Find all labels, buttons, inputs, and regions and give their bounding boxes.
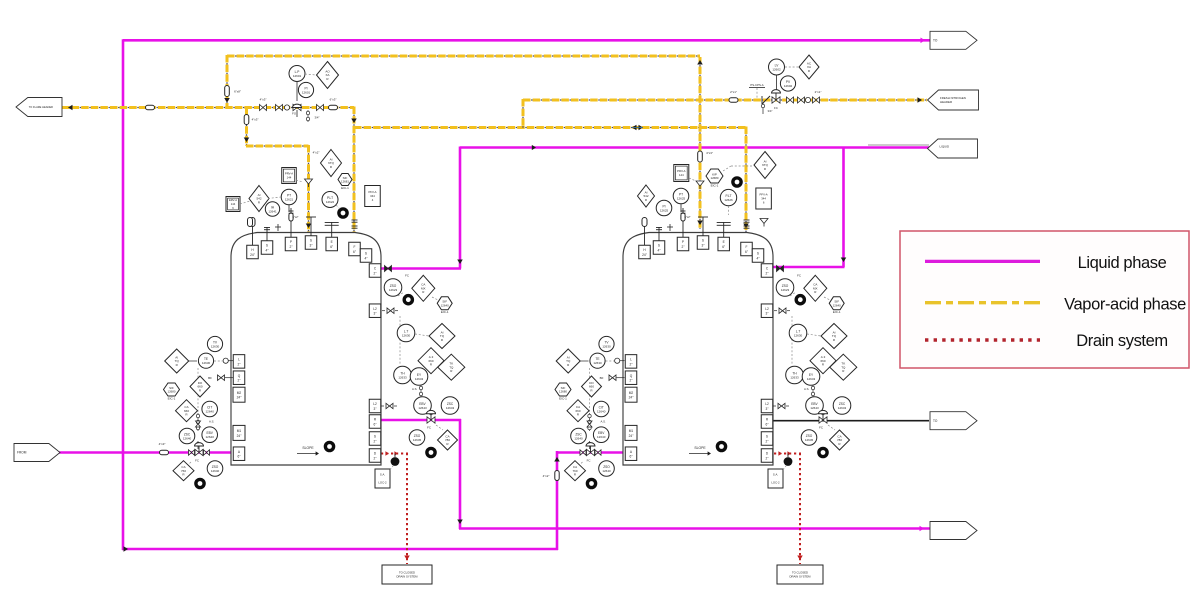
svg-text:12640: 12640 (206, 409, 215, 413)
svg-text:Drain system: Drain system (1076, 332, 1167, 350)
svg-text:Vapor-acid phase: Vapor-acid phase (1064, 296, 1186, 314)
svg-text:12640: 12640 (211, 469, 220, 473)
svg-text:SLOPE: SLOPE (302, 446, 314, 450)
svg-text:12623: 12623 (781, 288, 790, 292)
svg-text:4"x3": 4"x3" (706, 151, 713, 155)
svg-text:M1: M1 (629, 429, 634, 433)
svg-text:12640: 12640 (833, 304, 841, 308)
svg-text:12630: 12630 (211, 344, 220, 348)
svg-text:6": 6" (374, 423, 377, 427)
svg-text:3": 3" (766, 407, 769, 411)
svg-text:4"x2": 4"x2" (313, 151, 320, 155)
svg-text:FC: FC (797, 273, 801, 277)
svg-text:2": 2" (766, 272, 769, 276)
svg-text:2": 2" (766, 440, 769, 444)
svg-text:12643: 12643 (446, 406, 455, 410)
svg-text:24": 24" (250, 253, 255, 257)
svg-text:4": 4" (365, 257, 368, 261)
svg-text:6": 6" (330, 245, 333, 249)
svg-text:EIC-1: EIC-1 (833, 310, 841, 314)
svg-text:LOC-2: LOC-2 (378, 481, 387, 485)
svg-text:TO FLARE HEADER: TO FLARE HEADER (29, 105, 53, 109)
svg-text:3/4": 3/4" (768, 109, 773, 113)
svg-text:A.S.: A.S. (412, 387, 418, 391)
svg-text:LIQUID: LIQUID (939, 145, 949, 149)
svg-text:4": 4" (658, 249, 661, 253)
svg-text:2": 2" (630, 362, 633, 366)
svg-text:S.A.: S.A. (380, 473, 386, 477)
svg-text:TO: TO (933, 419, 938, 423)
svg-text:EIC-1: EIC-1 (711, 183, 719, 187)
svg-text:DRAIN SYSTEM: DRAIN SYSTEM (790, 575, 812, 579)
svg-text:S: S (365, 252, 367, 256)
svg-text:3": 3" (374, 312, 377, 316)
svg-text:S: S (310, 239, 312, 243)
svg-text:EIC-1: EIC-1 (559, 396, 567, 400)
svg-text:12640: 12640 (441, 304, 449, 308)
svg-text:F: F (746, 245, 748, 249)
svg-text:12680: 12680 (710, 176, 718, 180)
svg-text:E: E (723, 240, 725, 244)
svg-text:FC: FC (195, 459, 199, 463)
svg-text:2"x1": 2"x1" (815, 90, 822, 94)
svg-text:12621: 12621 (285, 197, 294, 201)
svg-text:12640: 12640 (206, 435, 215, 439)
svg-text:FC: FC (774, 106, 778, 110)
svg-text:M2: M2 (237, 391, 242, 395)
svg-text:BF: BF (600, 376, 604, 380)
svg-text:6": 6" (722, 245, 725, 249)
svg-text:3": 3" (374, 407, 377, 411)
svg-text:3": 3" (702, 244, 705, 248)
svg-text:12630: 12630 (202, 361, 211, 365)
svg-text:A.S.: A.S. (601, 419, 607, 423)
svg-text:6": 6" (766, 423, 769, 427)
svg-text:L2: L2 (765, 307, 769, 311)
svg-text:12601: 12601 (302, 90, 311, 94)
svg-text:12645: 12645 (805, 438, 814, 442)
svg-text:12630: 12630 (593, 361, 602, 365)
svg-text:12643: 12643 (418, 406, 427, 410)
svg-text:2": 2" (374, 457, 377, 461)
svg-text:12625: 12625 (677, 196, 686, 200)
svg-text:6"x8": 6"x8" (234, 90, 241, 94)
svg-text:2"x1": 2"x1" (730, 90, 737, 94)
svg-text:S: S (374, 435, 376, 439)
svg-text:SLOPE: SLOPE (694, 446, 706, 450)
svg-text:6"x2": 6"x2" (684, 215, 690, 219)
svg-text:24": 24" (629, 396, 634, 400)
svg-text:12626: 12626 (724, 198, 733, 202)
svg-text:2": 2" (238, 362, 241, 366)
svg-text:144: 144 (231, 202, 236, 206)
svg-text:12641: 12641 (268, 209, 277, 213)
svg-text:EIC-1: EIC-1 (441, 310, 449, 314)
svg-text:L: L (630, 358, 632, 362)
svg-text:FROM: FROM (17, 451, 27, 455)
svg-text:HEADER: HEADER (940, 100, 952, 104)
svg-text:24": 24" (237, 434, 242, 438)
svg-text:3": 3" (766, 312, 769, 316)
svg-text:F: F (354, 245, 356, 249)
svg-text:DRAIN SYSTEM: DRAIN SYSTEM (397, 575, 419, 579)
svg-text:L2: L2 (373, 307, 377, 311)
svg-text:144: 144 (287, 176, 292, 180)
svg-text:12680: 12680 (167, 390, 175, 394)
svg-text:12643: 12643 (415, 377, 424, 381)
svg-text:12640: 12640 (602, 469, 611, 473)
svg-text:6"x2": 6"x2" (292, 215, 298, 219)
svg-text:S: S (766, 435, 768, 439)
svg-text:144: 144 (679, 173, 684, 177)
svg-text:2": 2" (238, 379, 241, 383)
svg-text:2": 2" (374, 272, 377, 276)
svg-text:6": 6" (238, 455, 241, 459)
svg-text:2": 2" (290, 245, 293, 249)
svg-text:12602: 12602 (772, 67, 781, 71)
svg-text:4"x3": 4"x3" (159, 442, 166, 446)
svg-text:12601: 12601 (293, 74, 302, 78)
svg-text:12643: 12643 (807, 377, 816, 381)
svg-text:12633: 12633 (398, 375, 407, 379)
svg-text:12630: 12630 (402, 333, 411, 337)
svg-text:FC: FC (819, 426, 823, 430)
svg-text:E: E (331, 240, 333, 244)
svg-text:EIC-1: EIC-1 (341, 186, 349, 190)
svg-text:24": 24" (642, 253, 647, 257)
svg-text:4": 4" (266, 249, 269, 253)
svg-text:6": 6" (630, 455, 633, 459)
svg-text:6": 6" (353, 250, 356, 254)
svg-text:PS-CPS-A: PS-CPS-A (750, 83, 763, 87)
svg-text:TO: TO (933, 39, 938, 43)
svg-text:12623: 12623 (389, 288, 398, 292)
svg-text:12640: 12640 (597, 409, 606, 413)
svg-text:P: P (290, 240, 292, 244)
svg-text:12625: 12625 (660, 208, 669, 212)
svg-text:6"x3": 6"x3" (330, 98, 337, 102)
svg-text:12681: 12681 (341, 180, 349, 184)
svg-text:Liquid phase: Liquid phase (1078, 254, 1167, 272)
svg-text:FC: FC (405, 273, 409, 277)
svg-text:M1: M1 (237, 429, 242, 433)
svg-text:L2: L2 (373, 402, 377, 406)
svg-text:LOC-2: LOC-2 (771, 481, 780, 485)
svg-text:3": 3" (310, 244, 313, 248)
svg-text:4"x2": 4"x2" (543, 474, 550, 478)
svg-text:L2: L2 (765, 402, 769, 406)
svg-text:12645: 12645 (413, 438, 422, 442)
svg-text:2": 2" (630, 379, 633, 383)
svg-text:S: S (702, 239, 704, 243)
svg-text:12640: 12640 (183, 436, 192, 440)
svg-text:A.S.: A.S. (209, 419, 215, 423)
svg-text:4"x3": 4"x3" (260, 98, 267, 102)
svg-text:EIC-1: EIC-1 (168, 396, 176, 400)
svg-text:3/4": 3/4" (315, 116, 320, 120)
svg-text:ERV-A: ERV-A (229, 198, 237, 202)
svg-text:S: S (658, 244, 660, 248)
svg-text:2": 2" (682, 245, 685, 249)
svg-text:A.S.: A.S. (804, 387, 810, 391)
svg-text:12680: 12680 (559, 390, 567, 394)
svg-text:12643: 12643 (810, 406, 819, 410)
svg-text:FC: FC (587, 459, 591, 463)
svg-text:2": 2" (766, 457, 769, 461)
svg-text:L: L (238, 358, 240, 362)
svg-text:4"x3": 4"x3" (252, 118, 259, 122)
svg-text:24": 24" (629, 434, 634, 438)
svg-text:12630: 12630 (602, 344, 611, 348)
svg-text:24": 24" (237, 396, 242, 400)
svg-text:P: P (682, 240, 684, 244)
svg-text:BF: BF (208, 376, 212, 380)
svg-text:S: S (757, 252, 759, 256)
svg-text:S: S (266, 244, 268, 248)
svg-text:FC: FC (427, 426, 431, 430)
svg-text:2": 2" (374, 440, 377, 444)
svg-text:6": 6" (745, 250, 748, 254)
svg-text:12640: 12640 (574, 436, 583, 440)
svg-text:4": 4" (757, 257, 760, 261)
svg-text:12643: 12643 (838, 406, 847, 410)
svg-text:M2: M2 (629, 391, 634, 395)
svg-text:12640: 12640 (597, 435, 606, 439)
svg-text:12622: 12622 (326, 200, 335, 204)
svg-text:12602: 12602 (784, 84, 793, 88)
svg-text:12630: 12630 (794, 333, 803, 337)
svg-text:12633: 12633 (790, 375, 799, 379)
svg-text:S.A.: S.A. (773, 473, 779, 477)
